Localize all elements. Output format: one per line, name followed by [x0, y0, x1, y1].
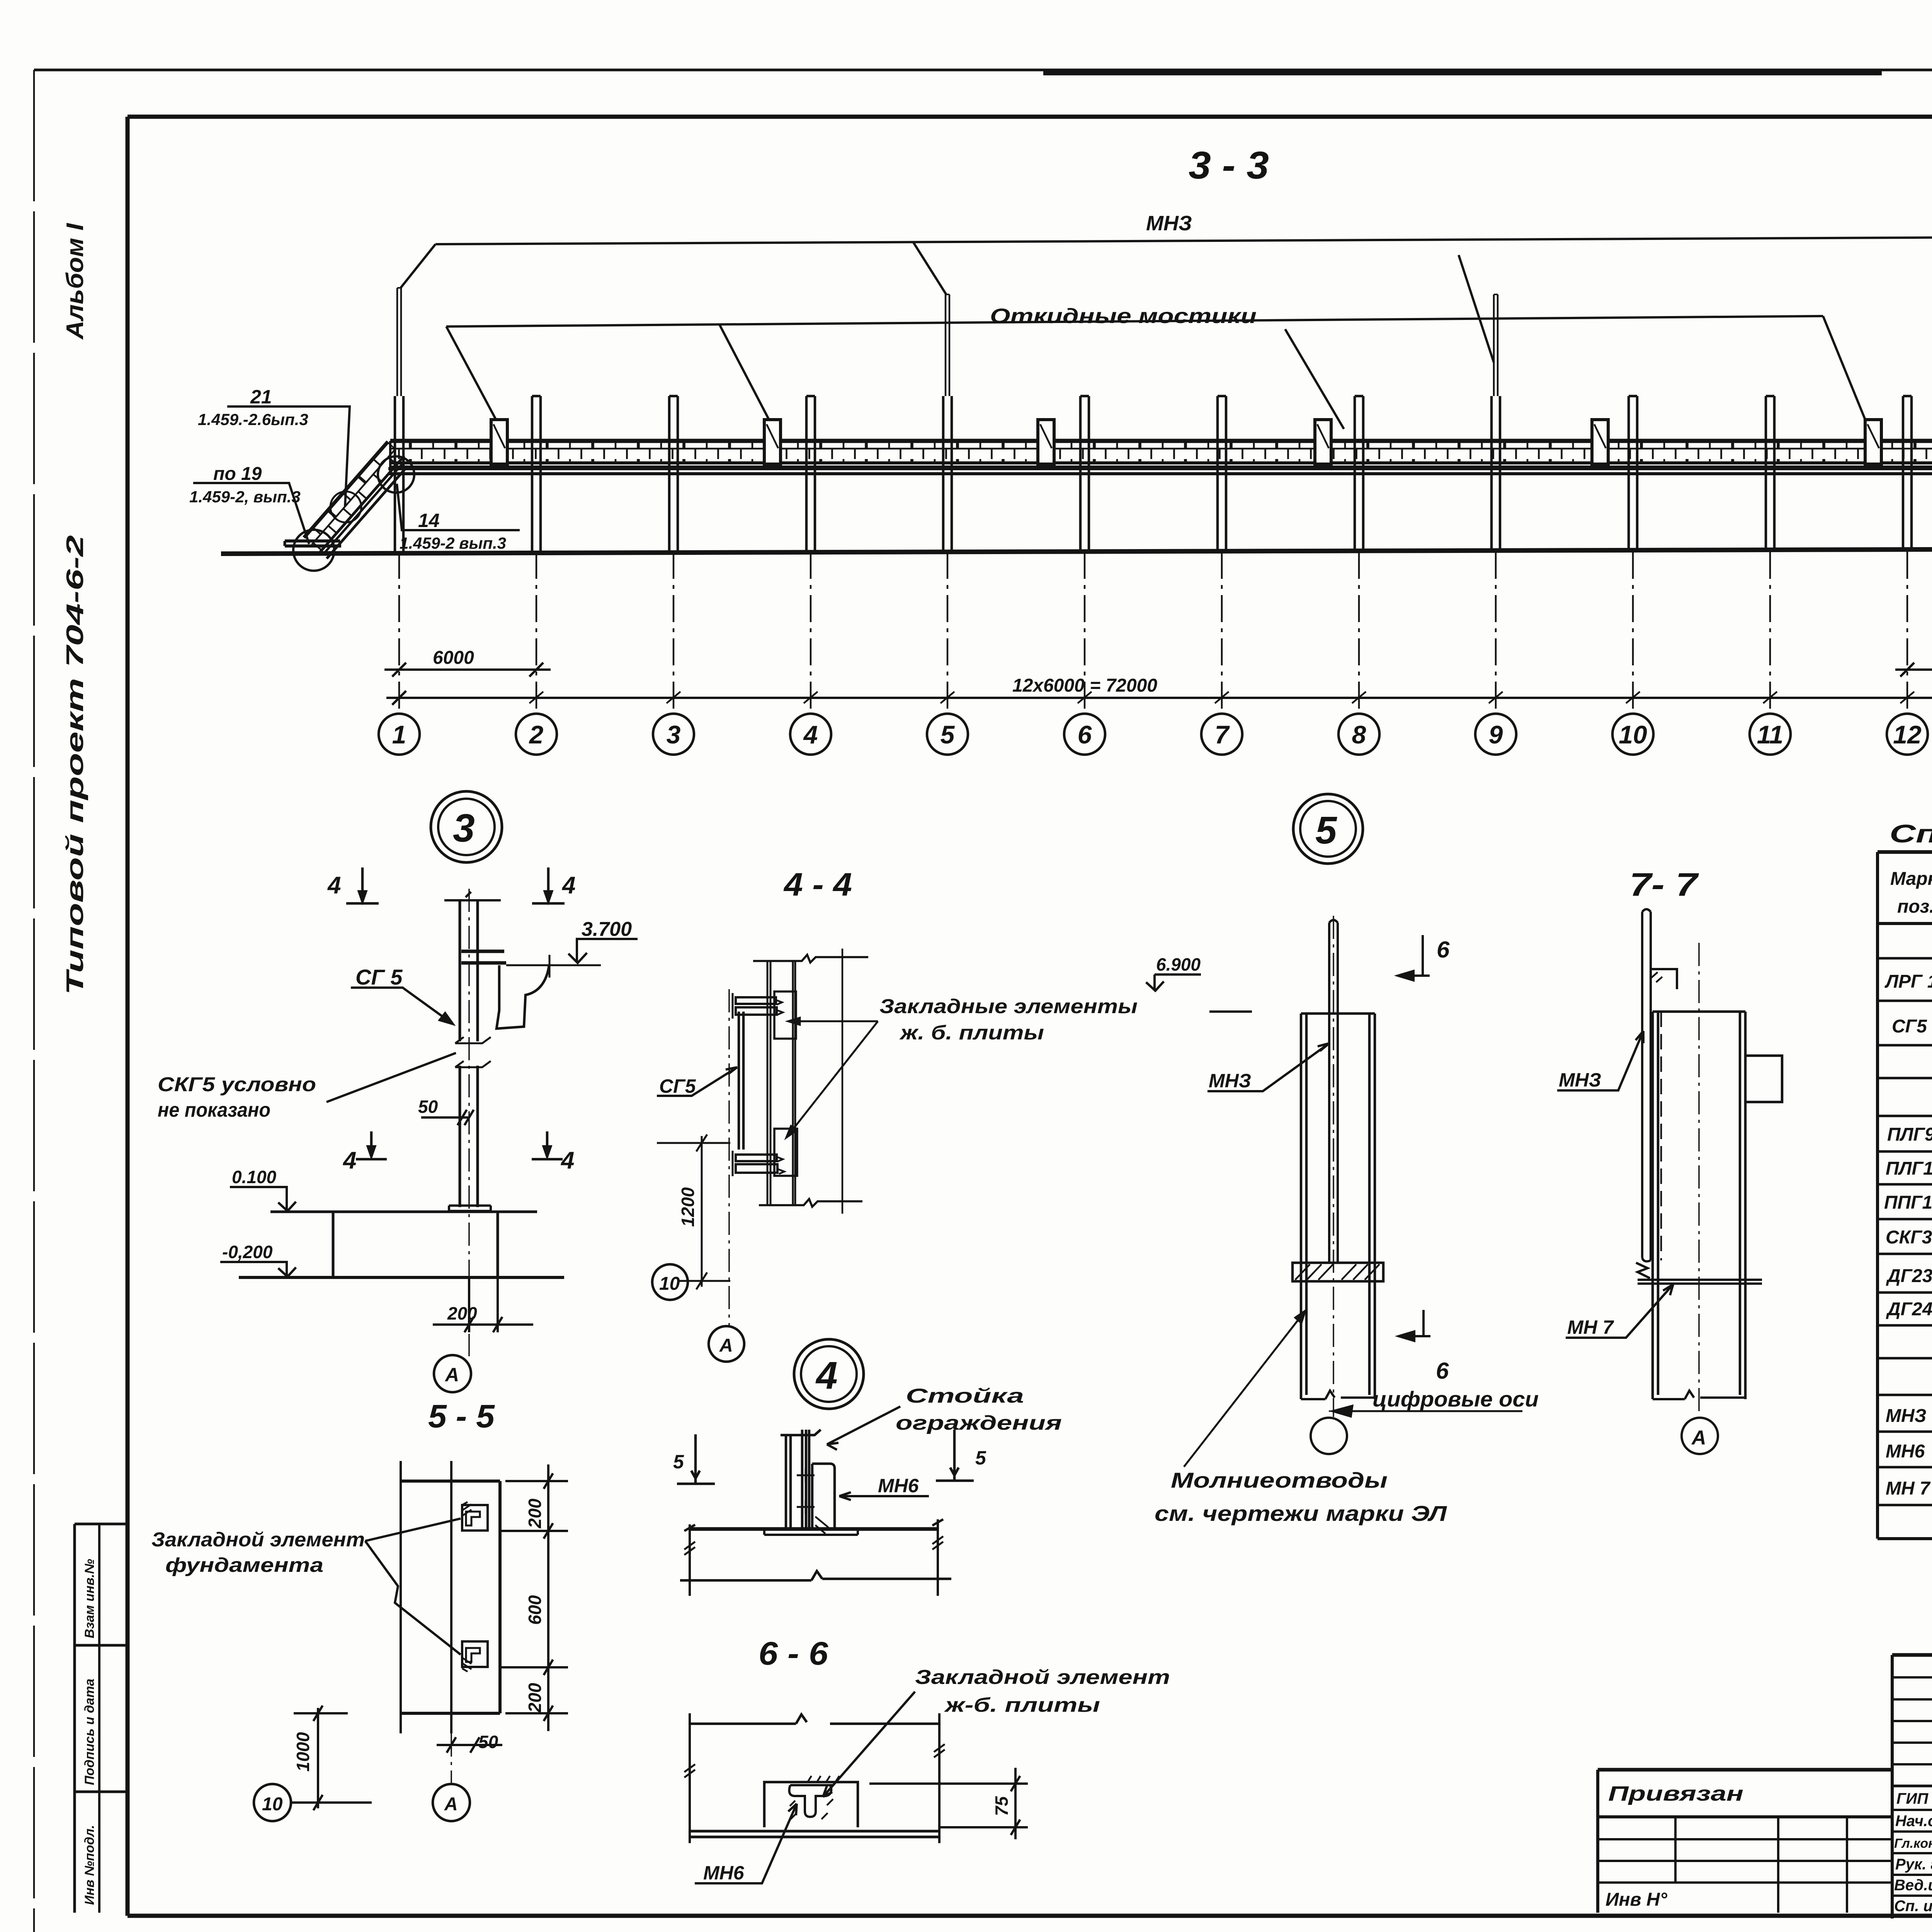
embedded plate with anchor — [764, 1776, 858, 1827]
section mark 4 lower right — [532, 1131, 563, 1159]
dimension 50 — [421, 1110, 474, 1125]
svg-text:50: 50 — [418, 1097, 438, 1117]
svg-text:12x6000 = 72000: 12x6000 = 72000 — [1012, 675, 1157, 696]
slab with embedded elements — [401, 1481, 500, 1713]
svg-text:Взам инв.№: Взам инв.№ — [82, 1559, 97, 1638]
node circle 4 — [794, 1339, 864, 1409]
section mark 4 upper right — [532, 867, 565, 903]
svg-text:9: 9 — [1489, 720, 1503, 749]
svg-text:21: 21 — [250, 386, 272, 408]
axis lines below ground — [399, 552, 1932, 713]
svg-text:Спецификация металлических э: Спецификация металлических элементов. — [1889, 819, 1932, 848]
svg-text:200: 200 — [525, 1498, 545, 1529]
svg-text:5 - 5: 5 - 5 — [428, 1398, 495, 1434]
svg-text:10: 10 — [262, 1794, 283, 1815]
svg-text:МН 7: МН 7 — [1886, 1478, 1931, 1499]
label СГ5 — [351, 988, 453, 1024]
svg-text:75: 75 — [992, 1796, 1012, 1816]
dimension row: 6000 left — [384, 663, 551, 677]
svg-text:6 - 6: 6 - 6 — [759, 1635, 828, 1672]
svg-text:Сп. инж.: Сп. инж. — [1894, 1898, 1932, 1915]
svg-text:Альбом I: Альбом I — [62, 223, 88, 340]
svg-text:6: 6 — [1078, 720, 1092, 749]
svg-text:МНЗ: МНЗ — [1559, 1069, 1601, 1091]
embedded element upper — [462, 1502, 488, 1531]
dimension 75 of 6-6 — [869, 1768, 1028, 1839]
svg-text:-0,200: -0,200 — [222, 1242, 273, 1262]
МНЗ rod in node 5 — [1329, 920, 1338, 1262]
axis dash-dot 7-7 — [1698, 943, 1700, 1417]
svg-text:Вед.инж: Вед.инж — [1894, 1877, 1932, 1894]
section mark 4 lower left — [356, 1131, 387, 1159]
slab under node 4 — [680, 1519, 951, 1596]
section mark 4 upper left — [346, 867, 379, 903]
svg-text:Рук. гр.: Рук. гр. — [1895, 1856, 1932, 1873]
elevation mark 3.700 at node 3 — [568, 939, 638, 963]
section mark 5 left — [677, 1434, 715, 1484]
label 21 with reference — [227, 406, 350, 506]
deck lines — [390, 466, 1932, 468]
ground line — [221, 549, 1932, 554]
circle below node 5 — [1311, 1418, 1347, 1454]
walkway edge lines in plan — [401, 1461, 451, 1733]
svg-text:ПЛГ9: ПЛГ9 — [1887, 1124, 1932, 1145]
svg-text:200: 200 — [447, 1303, 477, 1323]
column of 7-7 — [1653, 1012, 1745, 1399]
svg-text:6: 6 — [1437, 937, 1450, 963]
bracket at top of rod 7-7 — [1651, 969, 1677, 989]
svg-text:200: 200 — [525, 1683, 545, 1713]
axis circle А of 4-4 — [709, 1326, 744, 1362]
left stair landing — [285, 541, 341, 546]
МНЗ rod in 7-7 — [1642, 909, 1651, 1261]
svg-text:Типовой проект 704-6-2: Типовой проект 704-6-2 — [62, 535, 88, 995]
svg-text:Откидные мостики: Откидные мостики — [990, 304, 1257, 328]
section mark 6 lower — [1399, 1310, 1430, 1341]
label МН6 of 6-6 — [695, 1804, 797, 1883]
svg-text:5: 5 — [940, 720, 955, 749]
label МНЗ node 5 — [1207, 1043, 1329, 1091]
svg-text:4: 4 — [342, 1147, 356, 1174]
svg-text:МН6: МН6 — [878, 1475, 919, 1497]
svg-text:5: 5 — [975, 1447, 986, 1469]
label СГ5 in 4-4 — [657, 1067, 737, 1096]
svg-text:4: 4 — [803, 720, 818, 749]
svg-text:цифровые оси: цифровые оси — [1372, 1387, 1539, 1411]
lightning mast rods at axes 1,5,9,13 — [397, 288, 1932, 396]
axis circles 1-13 — [379, 714, 1932, 755]
svg-text:5: 5 — [1315, 809, 1337, 852]
label цифровые оси — [1332, 1406, 1522, 1417]
svg-text:Марка,: Марка, — [1890, 869, 1932, 889]
svg-text:МН6: МН6 — [703, 1862, 745, 1884]
МНЗ leader line — [400, 237, 1932, 362]
svg-text:4: 4 — [327, 872, 341, 899]
foundation — [239, 1212, 564, 1277]
node circle at stair bottom — [293, 530, 334, 571]
slab plan of 6-6 — [684, 1713, 945, 1843]
svg-text:6000: 6000 — [433, 648, 474, 668]
node circle 5 — [1293, 794, 1363, 864]
elevation mark 6.900 — [1146, 975, 1201, 991]
dimension 200 under foundation — [433, 1279, 533, 1332]
svg-text:3: 3 — [667, 720, 681, 749]
svg-text:1200: 1200 — [678, 1187, 698, 1227]
railing band with brick infill — [390, 442, 1932, 463]
signature rows text — [1894, 1790, 1932, 1915]
left margin stamp strip — [75, 1524, 128, 1913]
svg-text:3: 3 — [453, 806, 475, 850]
console bracket at 3.700 — [461, 951, 601, 1029]
fold-down bridge blocks — [491, 420, 1881, 464]
svg-text:СКГ5 условно: СКГ5 условно — [158, 1073, 316, 1096]
dimension 1000 vertical — [294, 1706, 348, 1810]
node circle at stair top — [378, 456, 414, 493]
svg-text:поз.: поз. — [1897, 896, 1932, 917]
svg-text:0.100: 0.100 — [232, 1167, 277, 1187]
svg-text:СГ5: СГ5 — [1892, 1016, 1927, 1037]
svg-text:Нач.отд: Нач.отд — [1895, 1813, 1932, 1830]
svg-text:1000: 1000 — [293, 1732, 313, 1772]
Привязан table — [1598, 1770, 1892, 1913]
label МН7 7-7 — [1566, 1284, 1673, 1338]
svg-text:фундамента: фундамента — [165, 1554, 323, 1577]
console at right of 7-7 — [1745, 1056, 1782, 1102]
svg-text:4: 4 — [561, 872, 575, 899]
elevation mark -0.200 at node 3 — [220, 1262, 296, 1277]
dimension row: 6000 right — [1895, 663, 1932, 677]
axis circle 10 of 4-4 — [652, 1264, 688, 1300]
svg-text:ДГ23: ДГ23 — [1886, 1266, 1932, 1286]
svg-text:СГ5: СГ5 — [659, 1075, 696, 1097]
embedded elements in 4-4 column — [774, 992, 797, 1176]
left stair — [303, 442, 411, 558]
svg-text:ограждения: ограждения — [896, 1412, 1062, 1434]
svg-text:3 - 3: 3 - 3 — [1189, 144, 1269, 187]
svg-text:1.459.-2.6ып.3: 1.459.-2.6ып.3 — [198, 410, 308, 429]
svg-text:А: А — [719, 1335, 733, 1356]
axis dash-dot 4-4 — [728, 989, 730, 1325]
svg-text:2: 2 — [529, 720, 544, 749]
signature table — [1892, 1655, 1932, 1918]
dash-dot axis of post — [468, 889, 470, 1356]
svg-text:Инв Н°: Инв Н° — [1605, 1889, 1668, 1910]
МН7 stop in 7-7 — [1636, 1263, 1762, 1284]
drawing frame — [128, 115, 1932, 119]
dimension chain 200-600-200 — [500, 1464, 568, 1731]
section mark 5 right — [936, 1430, 974, 1481]
table rows — [1884, 934, 1932, 1500]
svg-text:10: 10 — [1619, 720, 1647, 749]
svg-text:11: 11 — [1757, 720, 1784, 749]
СГ5 plate in section 4-4 — [733, 993, 784, 1176]
svg-text:МНЗ: МНЗ — [1209, 1070, 1251, 1092]
svg-text:4: 4 — [815, 1354, 838, 1397]
svg-text:ЛРГ 17: ЛРГ 17 — [1884, 971, 1932, 992]
svg-text:ГИП: ГИП — [1896, 1790, 1929, 1807]
stand with shoe МН6 — [781, 1430, 835, 1534]
svg-text:12: 12 — [1893, 720, 1922, 749]
svg-text:ПЛГ10: ПЛГ10 — [1886, 1158, 1932, 1179]
svg-text:Привязан: Привязан — [1608, 1782, 1743, 1805]
МН7 flange in node 5 — [1293, 1263, 1383, 1281]
column of section 4-4 — [753, 949, 868, 1214]
axis dash-dot node 5 — [1329, 916, 1338, 1417]
svg-text:Стойка: Стойка — [906, 1385, 1024, 1407]
svg-text:1.459-2, вып.3: 1.459-2, вып.3 — [189, 488, 301, 506]
table header texts — [1890, 869, 1932, 917]
svg-text:ППГ12: ППГ12 — [1884, 1192, 1932, 1213]
elevation mark 6.900 ref — [1209, 1010, 1252, 1013]
label 14 with reference — [397, 484, 520, 530]
svg-text:6: 6 — [1436, 1358, 1449, 1384]
svg-text:Гл.констр.: Гл.констр. — [1894, 1836, 1932, 1851]
axis circle 10 of 5-5 — [254, 1784, 291, 1821]
svg-text:Молниеотводы: Молниеотводы — [1171, 1468, 1388, 1492]
svg-text:3.700: 3.700 — [582, 918, 632, 940]
dimension row: 12x6000=72000 — [386, 691, 1932, 705]
svg-text:Закладной элемент: Закладной элемент — [151, 1529, 365, 1551]
svg-text:Закладной элемент: Закладной элемент — [915, 1666, 1170, 1689]
axis circle А of node 3 — [434, 1355, 471, 1392]
svg-text:МНЗ: МНЗ — [1146, 212, 1192, 235]
label МН6 at node 4 — [839, 1492, 929, 1500]
embedded element lower — [462, 1641, 488, 1672]
svg-text:Подпись и дата: Подпись и дата — [82, 1679, 97, 1785]
stand СГ5 post — [444, 892, 501, 1207]
svg-text:Закладные элементы: Закладные элементы — [879, 995, 1138, 1018]
svg-text:Инв №подл.: Инв №подл. — [82, 1825, 97, 1905]
railing posts at intermediate axes — [395, 396, 1932, 474]
svg-text:ДГ24: ДГ24 — [1886, 1299, 1932, 1320]
axis circle А of 5-5 — [433, 1784, 470, 1821]
svg-text:А: А — [444, 1794, 458, 1815]
svg-text:4: 4 — [560, 1147, 574, 1174]
label по 19 with reference — [193, 483, 309, 544]
svg-text:4 - 4: 4 - 4 — [783, 866, 852, 903]
svg-text:МН 7: МН 7 — [1567, 1316, 1614, 1338]
table grid — [1878, 852, 1932, 1539]
svg-text:10: 10 — [659, 1274, 680, 1294]
node circle at stair middle — [330, 492, 361, 522]
svg-text:ж. б. плиты: ж. б. плиты — [899, 1022, 1044, 1044]
dimension 1200 in 4-4 — [657, 1134, 730, 1289]
svg-text:1: 1 — [392, 720, 406, 749]
section mark 6 upper — [1398, 935, 1430, 980]
svg-text:А: А — [1691, 1427, 1706, 1449]
svg-text:1.459-2 вып.3: 1.459-2 вып.3 — [400, 534, 506, 552]
svg-text:600: 600 — [525, 1595, 545, 1625]
svg-text:50: 50 — [478, 1732, 498, 1752]
svg-text:8: 8 — [1352, 720, 1366, 749]
label МНЗ 7-7 — [1557, 1031, 1643, 1090]
dimension 50 at bottom — [437, 1737, 502, 1753]
svg-text:7- 7: 7- 7 — [1629, 866, 1699, 903]
svg-text:ж-б. плиты: ж-б. плиты — [944, 1694, 1100, 1716]
elevation mark 0.100 at node 3 — [230, 1187, 296, 1211]
svg-text:по 19: по 19 — [213, 464, 262, 484]
svg-text:6.900: 6.900 — [1156, 954, 1201, 975]
svg-text:см. чертежи марки ЭЛ: см. чертежи марки ЭЛ — [1155, 1501, 1447, 1526]
svg-text:СГ 5: СГ 5 — [355, 965, 403, 989]
svg-text:5: 5 — [673, 1451, 684, 1473]
svg-text:не показано: не показано — [158, 1099, 270, 1121]
svg-text:МН6: МН6 — [1886, 1441, 1925, 1462]
paper edge left — [33, 70, 35, 1932]
svg-text:А: А — [444, 1364, 459, 1386]
Откидные мостики leader line — [446, 316, 1867, 429]
svg-text:СКГ3: СКГ3 — [1886, 1227, 1932, 1248]
axis circle А of 7-7 — [1682, 1418, 1718, 1454]
node circle 3 — [431, 791, 502, 862]
paper edge top — [34, 69, 1932, 71]
svg-text:14: 14 — [418, 510, 440, 531]
base plate of stand — [449, 1206, 491, 1211]
columns below deck at each axis — [395, 474, 1932, 552]
column of node 5 — [1301, 1014, 1375, 1399]
svg-text:7: 7 — [1215, 720, 1230, 749]
hidden rod line dashed — [1660, 1012, 1662, 1260]
svg-text:МНЗ: МНЗ — [1886, 1406, 1927, 1426]
